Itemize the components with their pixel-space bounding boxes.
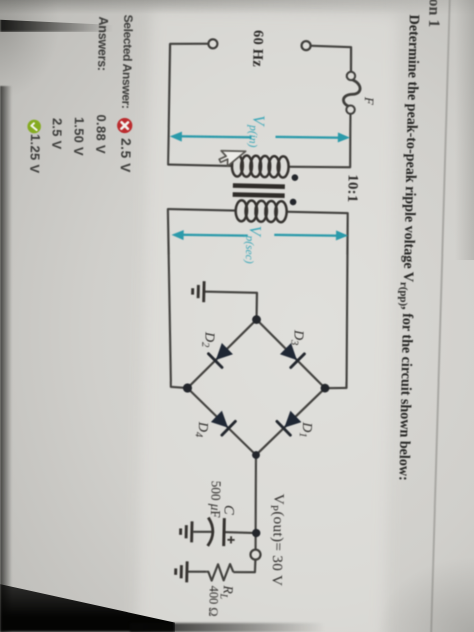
diode D3 xyxy=(281,344,305,368)
svg-text:1.25 V: 1.25 V xyxy=(27,134,43,174)
svg-text:Selected Answer:: Selected Answer: xyxy=(119,14,135,108)
wire: lower source terminal down to bottom rail, to primary bottom xyxy=(167,43,235,166)
transformer secondary winding xyxy=(235,200,286,222)
output terminal circle xyxy=(250,550,260,560)
wire: bridge left corner to ground stem xyxy=(204,292,257,320)
source plug terminals xyxy=(208,39,310,51)
svg-text:500 μF: 500 μF xyxy=(208,481,224,518)
svg-text:1.50 V: 1.50 V xyxy=(71,117,87,156)
Vp(in) voltage arrow xyxy=(171,129,349,144)
svg-text:60 Hz: 60 Hz xyxy=(249,30,266,68)
resistor RL zigzag xyxy=(206,564,233,582)
transformer core bars xyxy=(233,183,285,198)
wire: top rail fuse to transformer, down to primary top xyxy=(288,112,352,168)
diode D4 xyxy=(212,411,236,435)
plus sign of capacitor xyxy=(227,536,234,543)
ground load xyxy=(175,561,187,582)
svg-text:400 Ω: 400 Ω xyxy=(206,586,221,617)
phasing dots xyxy=(290,174,299,205)
svg-text:0.88 V: 0.88 V xyxy=(93,114,109,154)
svg-text:Determine the peak-to-peak rip: Determine the peak-to-peak ripple voltag… xyxy=(393,14,422,481)
svg-text:2.5 V: 2.5 V xyxy=(118,138,134,173)
incorrect X icon xyxy=(117,118,133,134)
diode D2 xyxy=(208,344,232,368)
capacitor C plates xyxy=(208,518,225,547)
wire: upper source terminal to top rail xyxy=(310,46,352,72)
wire: resistor bottom to ground xyxy=(188,570,206,573)
svg-text:on 1: on 1 xyxy=(425,0,443,28)
wire: secondary bottom rail to bridge bottom corner xyxy=(164,209,236,389)
wire: capacitor branch from junction xyxy=(225,531,256,534)
junction dots xyxy=(180,314,331,539)
fuse terminal circles xyxy=(346,72,356,114)
svg-text:10:1: 10:1 xyxy=(344,174,361,203)
transformer primary winding xyxy=(232,155,289,177)
photo edge shadows xyxy=(0,0,474,14)
mouse cursor xyxy=(219,151,246,167)
diode D1 xyxy=(277,411,301,435)
figure background (embedded image lighter than page) xyxy=(137,9,399,632)
wire: secondary top rail to bridge top corner xyxy=(282,212,350,389)
fuse S-curve xyxy=(343,79,360,107)
ground bridge xyxy=(192,281,204,302)
svg-text:F: F xyxy=(362,96,376,105)
wire: output rail right corner to load xyxy=(254,455,258,550)
Vp(sec) voltage arrow xyxy=(173,227,347,243)
svg-text:2.5 V: 2.5 V xyxy=(49,118,65,150)
correct check icon xyxy=(27,120,41,134)
separator rule under question header xyxy=(431,0,450,632)
ground capacitor xyxy=(180,521,192,542)
svg-text:Answers:: Answers: xyxy=(95,16,110,71)
bridge diamond wires xyxy=(186,318,327,456)
